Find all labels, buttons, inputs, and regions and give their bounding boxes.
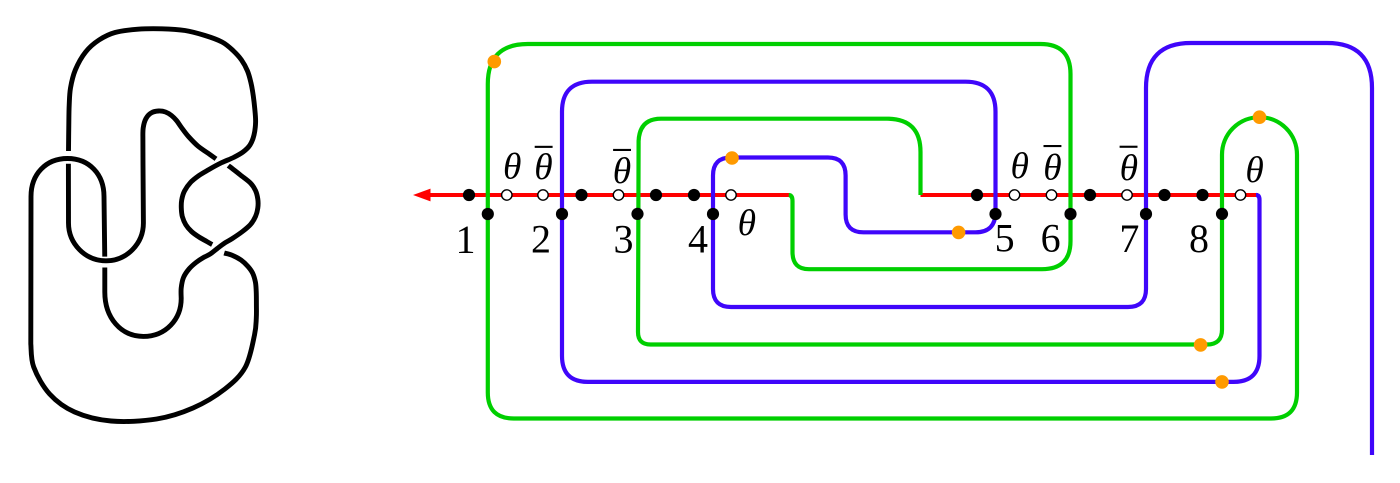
knot diagram (left): main strand (31, 29, 258, 422)
green long curve (488, 44, 1297, 419)
knot strand D: inner hook from X1 under-gap, hook bump, inner U (over C2), to under-gap at C1 (68, 111, 216, 261)
svg-text:5: 5 (995, 216, 1015, 261)
svg-text:θ: θ (534, 147, 552, 188)
svg-text:4: 4 (688, 217, 708, 262)
svg-text:θ: θ (1043, 147, 1061, 188)
svg-text:3: 3 (614, 217, 634, 262)
svg-text:2: 2 (531, 217, 551, 262)
svg-text:θ: θ (503, 146, 521, 187)
svg-text:θ: θ (613, 151, 631, 192)
orange dots (488, 55, 1267, 389)
red arrowhead (413, 189, 431, 202)
svg-text:θ: θ (1010, 146, 1028, 187)
numbers 1-8 (456, 216, 1210, 263)
knot strand A: top dome through upper-left crossing, over crossing X1, left bulge, to under-gap at X2 (69, 29, 256, 245)
knot strand B: from X2 under-gap, bottom-right shoulder, big bottom loop, left column, small-loop top arc (over C1), centre column to under-gap at C2 (31, 159, 257, 422)
theta labels above axis (503, 146, 1264, 244)
svg-text:θ: θ (1120, 148, 1138, 189)
red axis arrow segment 1 (428, 193, 1258, 197)
blue long curve (562, 43, 1372, 455)
svg-text:8: 8 (1189, 216, 1209, 261)
overline bars for barred thetas (535, 145, 1138, 151)
open circles on axis (502, 190, 1246, 200)
svg-text:6: 6 (1041, 216, 1061, 261)
black dots below axis on chords (482, 208, 1228, 220)
svg-text:θ: θ (1245, 150, 1263, 191)
knot strand C: centre column below C2, inner bottom U, rise over X2, right bulge, to under-gap at X1 (105, 166, 258, 337)
svg-text:7: 7 (1119, 216, 1139, 261)
svg-text:θ: θ (738, 203, 756, 244)
svg-text:1: 1 (456, 217, 476, 262)
red axis segment 2 (921, 193, 1259, 197)
black filled dots on axis (463, 189, 1209, 201)
